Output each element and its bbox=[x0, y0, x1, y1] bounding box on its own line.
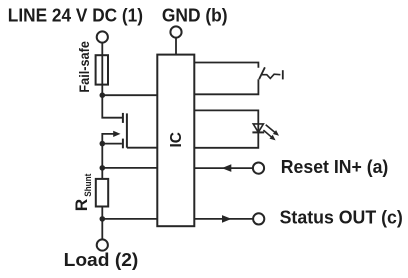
LED D1 triangle bbox=[253, 124, 263, 132]
svg-text:Reset IN+ (a): Reset IN+ (a) bbox=[281, 157, 389, 177]
wire shunt bottom junction to IC bbox=[102, 218, 157, 220]
LED D1 cathode bar bbox=[252, 131, 264, 133]
transistor Q1 substrate arrow bbox=[102, 134, 114, 144]
transistor Q1 drain contact bar bbox=[122, 113, 124, 123]
LED D1 light arrow 2 bbox=[263, 130, 271, 137]
arrowhead Status output (points right toward terminal) bbox=[222, 215, 232, 223]
junction dot source at y143.6 bbox=[100, 141, 106, 147]
terminal 1 LINE 24 V DC bbox=[97, 31, 108, 42]
wire shunt top junction to IC bbox=[102, 167, 157, 169]
IC block U1 bbox=[157, 55, 194, 227]
terminal c Status OUT bbox=[253, 213, 264, 224]
svg-text:IC: IC bbox=[168, 132, 185, 148]
svg-text:GND (b): GND (b) bbox=[162, 6, 228, 26]
svg-text:Shunt: Shunt bbox=[83, 173, 94, 197]
svg-text:LINE 24 V DC (1): LINE 24 V DC (1) bbox=[8, 6, 143, 26]
wire GND terminal to IC top bbox=[175, 38, 177, 55]
wire left rail upper (LINE terminal through fuse to gate turn, then to drain bar) bbox=[102, 43, 122, 118]
switch S1 actuator squiggle bbox=[262, 74, 280, 78]
wire switch bottom contact to IC bbox=[194, 79, 258, 94]
resistor R shunt bbox=[96, 179, 108, 207]
svg-text:Load (2): Load (2) bbox=[64, 250, 139, 270]
terminal a Reset IN+ bbox=[253, 163, 264, 174]
wire IC to switch top contact bbox=[194, 63, 258, 68]
transistor Q1 source contact bar bbox=[122, 139, 124, 149]
terminal b GND bbox=[170, 26, 181, 37]
arrowhead Reset input (points left toward IC) bbox=[222, 164, 232, 172]
transistor Q1 channel bbox=[126, 113, 128, 147]
fuse F1 fail-safe bbox=[96, 55, 108, 84]
junction dot rail/IC at y95 bbox=[100, 92, 106, 98]
terminal 2 Load bbox=[97, 239, 108, 250]
wire IC to Status terminal bbox=[194, 218, 253, 220]
svg-text:Fail-safe: Fail-safe bbox=[77, 41, 92, 93]
junction dot shunt bottom bbox=[100, 216, 106, 222]
wire MOSFET channel to IC (gate drive) bbox=[127, 147, 157, 149]
LED D1 light arrow 1 bbox=[263, 125, 275, 138]
svg-text:Status OUT (c): Status OUT (c) bbox=[280, 207, 403, 227]
wire LED cathode back to IC bbox=[194, 132, 258, 147]
wire IC to Reset terminal bbox=[194, 167, 252, 169]
svg-text:R: R bbox=[73, 199, 91, 212]
wire IC to LED anode (through LED) bbox=[194, 110, 258, 132]
wire junction rail to IC pin at y95 bbox=[102, 94, 157, 96]
wire left rail lower (source junction to shunt top junction) bbox=[101, 144, 103, 240]
wire MOSFET source lead bbox=[102, 143, 122, 145]
switch S1 blade bbox=[259, 67, 265, 79]
junction dot shunt top bbox=[100, 165, 106, 171]
switch S1 actuator end bar bbox=[282, 70, 284, 79]
